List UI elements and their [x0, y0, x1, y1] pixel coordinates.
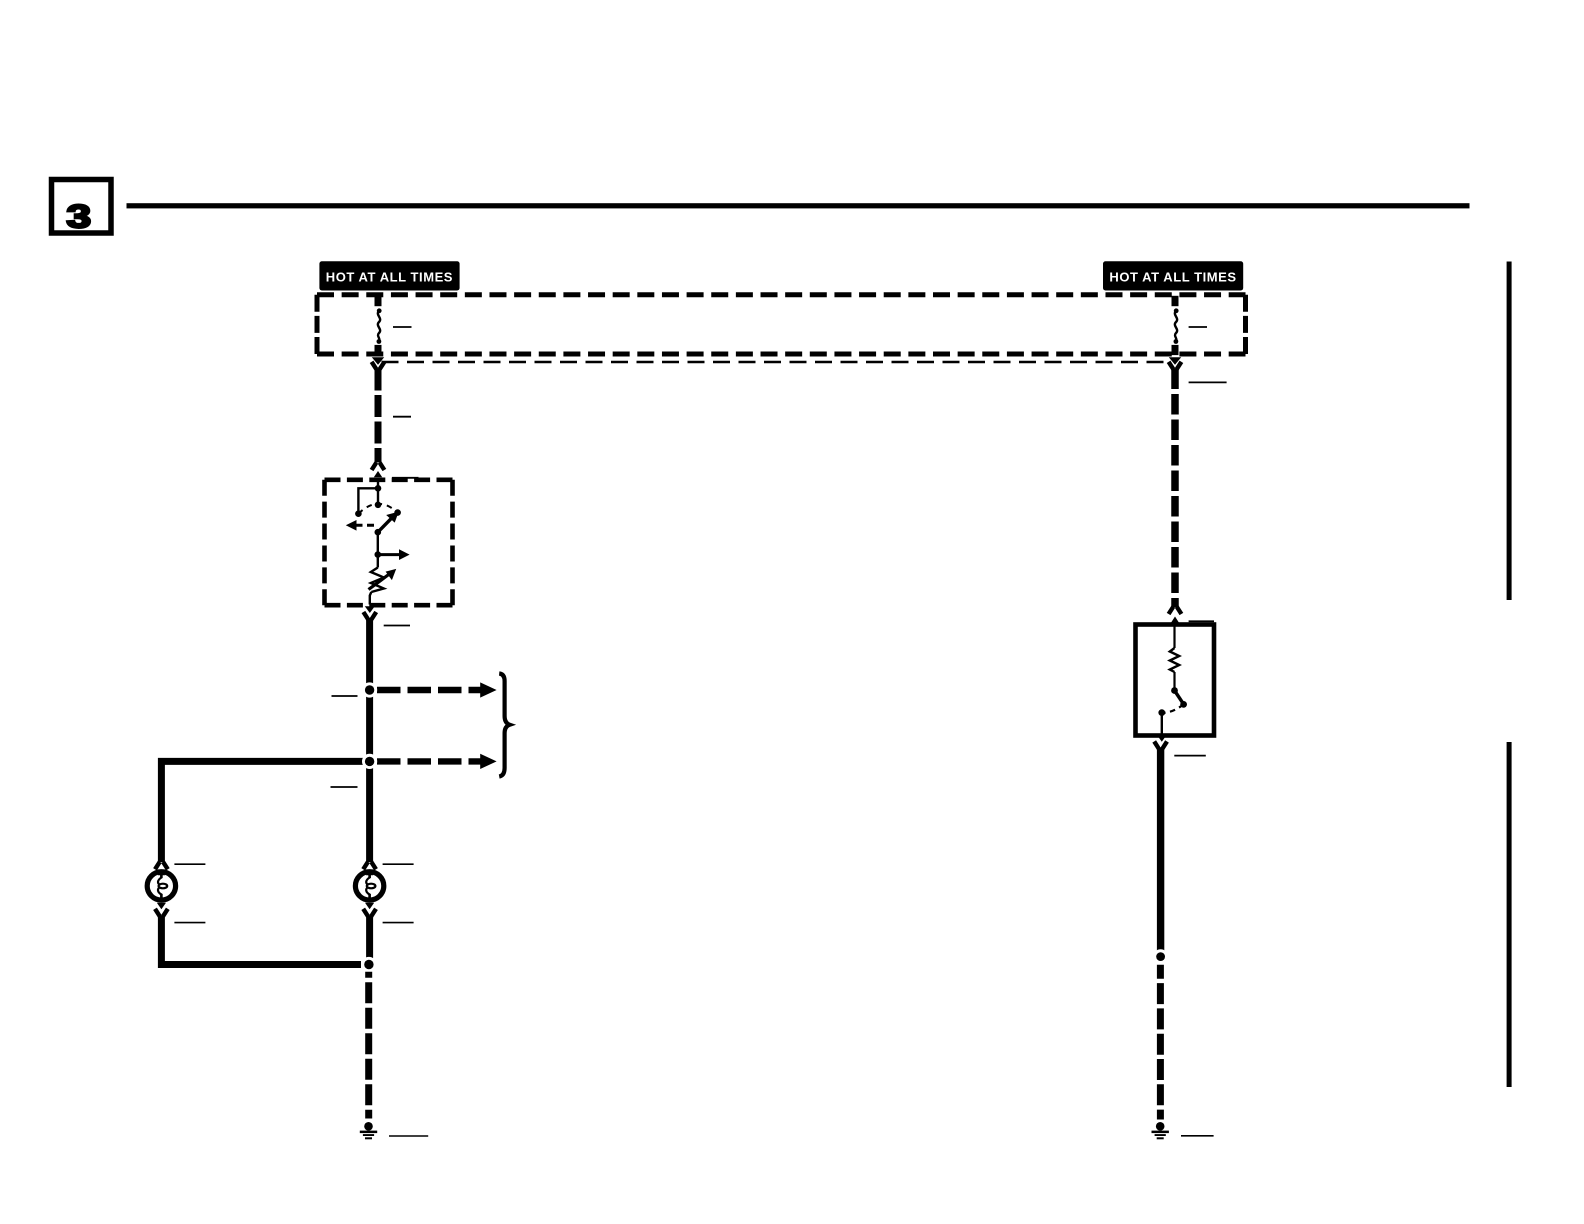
svg-text:3: 3	[67, 199, 92, 235]
svg-text:HOT AT ALL TIMES: HOT AT ALL TIMES	[1109, 270, 1236, 285]
svg-text:HOT AT ALL TIMES: HOT AT ALL TIMES	[326, 270, 453, 285]
